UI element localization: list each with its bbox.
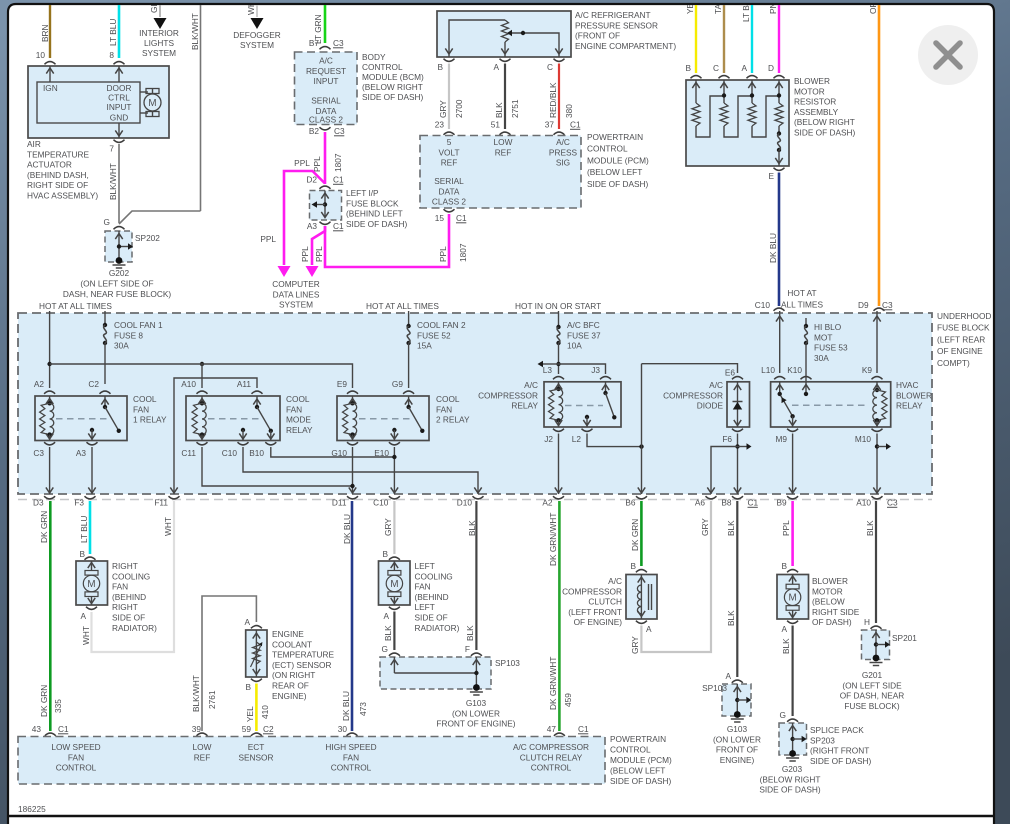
svg-text:COMPRESSOR: COMPRESSOR: [478, 390, 538, 400]
svg-text:MOTOR: MOTOR: [794, 86, 825, 96]
svg-text:A: A: [646, 624, 652, 634]
wire bus to A10: [201, 364, 203, 388]
connector pin 15: [444, 209, 455, 212]
svg-text:HOT AT ALL TIMES: HOT AT ALL TIMES: [39, 301, 112, 311]
svg-text:DATA LINES: DATA LINES: [273, 289, 320, 299]
svg-text:B: B: [437, 62, 443, 72]
svg-text:B9: B9: [776, 498, 787, 508]
svg-text:F11: F11: [154, 498, 168, 508]
svg-text:FAN: FAN: [436, 404, 452, 414]
wire WHT to defogger: [256, 5, 258, 17]
resistor branch D: [778, 80, 780, 103]
svg-text:(BEHIND: (BEHIND: [415, 592, 449, 602]
wire F6 junction to A6 and B8: [737, 434, 739, 495]
svg-text:ALL TIMES: ALL TIMES: [781, 300, 823, 310]
svg-text:HVAC: HVAC: [896, 380, 918, 390]
svg-text:2761: 2761: [207, 690, 217, 709]
exit A2 connector: [553, 496, 564, 499]
svg-text:VOLT: VOLT: [438, 147, 459, 157]
connectors PCM top: [444, 132, 455, 135]
connector B blower: [787, 570, 798, 573]
svg-text:LOW: LOW: [494, 137, 513, 147]
svg-text:WHT: WHT: [81, 626, 91, 645]
svg-text:2700: 2700: [454, 99, 464, 118]
svg-text:RED/BLK: RED/BLK: [548, 82, 558, 118]
wire BLK/WHT from top: [200, 5, 202, 211]
resistor branch C: [723, 80, 725, 103]
svg-text:REAR OF: REAR OF: [272, 681, 309, 691]
wire ORG from top to D9: [878, 5, 881, 306]
svg-text:MODULE (PCM): MODULE (PCM): [610, 755, 672, 765]
wire GRY to interior lights: [159, 5, 161, 17]
svg-text:DK BLU: DK BLU: [342, 514, 352, 544]
svg-text:M10: M10: [855, 434, 872, 444]
connector A ECT: [251, 626, 262, 629]
svg-text:PRESSURE SENSOR: PRESSURE SENSOR: [575, 20, 658, 30]
svg-text:39: 39: [192, 724, 202, 734]
svg-text:DK GRN/WHT: DK GRN/WHT: [548, 513, 558, 566]
svg-text:8: 8: [109, 50, 114, 60]
svg-text:YEL: YEL: [245, 706, 255, 722]
wire BLK B8 to SP103#2: [736, 501, 738, 677]
svg-text:BLK: BLK: [726, 610, 736, 626]
svg-text:A3: A3: [307, 221, 318, 231]
connector A blower: [787, 621, 798, 624]
svg-text:A/C BFC: A/C BFC: [567, 320, 600, 330]
connector G SP202: [114, 227, 125, 230]
svg-text:INPUT: INPUT: [314, 76, 339, 86]
sensor internal left lead pin B: [449, 20, 505, 57]
svg-text:(RIGHT FRONT: (RIGHT FRONT: [810, 746, 869, 756]
svg-text:CLASS 2: CLASS 2: [309, 115, 344, 125]
connectors B C A D: [691, 76, 702, 79]
connectors A2 C2: [44, 391, 55, 394]
svg-text:MODULE (PCM): MODULE (PCM): [587, 155, 649, 165]
svg-text:380: 380: [564, 104, 574, 118]
arrow computer data lines (right): [306, 266, 319, 277]
stub arrow left: [543, 363, 559, 365]
svg-text:LOW: LOW: [193, 742, 212, 752]
svg-text:B: B: [685, 63, 691, 73]
svg-text:A11: A11: [237, 379, 252, 389]
svg-text:DOOR: DOOR: [107, 83, 132, 93]
wire LT BLU to pin A: [751, 5, 753, 73]
svg-text:(ON LEFT SIDE OF: (ON LEFT SIDE OF: [80, 279, 153, 289]
svg-text:30A: 30A: [114, 341, 129, 351]
svg-text:BLOWER: BLOWER: [896, 390, 932, 400]
svg-text:ENGINE): ENGINE): [272, 691, 307, 701]
svg-text:A/C: A/C: [709, 380, 723, 390]
connector pin 10: [45, 62, 56, 65]
box left cooling fan: [379, 561, 411, 605]
svg-text:A: A: [244, 617, 250, 627]
svg-text:FAN: FAN: [133, 404, 149, 414]
svg-text:RELAY: RELAY: [286, 425, 313, 435]
svg-text:D: D: [768, 63, 774, 73]
svg-text:COOL: COOL: [133, 394, 157, 404]
wire BLK left fan A to G: [393, 612, 395, 651]
svg-text:LT BLU: LT BLU: [79, 516, 89, 543]
wire C10 to L10: [779, 311, 781, 373]
svg-text:AIR: AIR: [27, 139, 41, 149]
left fan motor: [393, 561, 395, 571]
wire LT BLU F3 to right fan B: [89, 501, 92, 554]
svg-text:(BEHIND DASH,: (BEHIND DASH,: [27, 170, 89, 180]
wire A3 to F3 exit: [91, 447, 93, 494]
svg-text:B6: B6: [625, 498, 636, 508]
svg-text:A: A: [80, 611, 86, 621]
svg-text:ASSEMBLY: ASSEMBLY: [794, 107, 839, 117]
svg-text:RELAY: RELAY: [896, 401, 923, 411]
svg-text:OF ENGINE): OF ENGINE): [574, 617, 623, 627]
arrow interior lights system: [154, 18, 167, 29]
svg-text:SERIAL: SERIAL: [311, 96, 341, 106]
svg-text:SIDE OF DASH): SIDE OF DASH): [759, 785, 821, 795]
box PCM (bottom): [18, 737, 605, 785]
svg-text:410: 410: [260, 705, 270, 719]
svg-text:37: 37: [545, 120, 555, 130]
svg-text:RIGHT: RIGHT: [112, 602, 138, 612]
close button: [918, 25, 978, 85]
svg-text:TEMPERATURE: TEMPERATURE: [27, 149, 90, 159]
connectors E9 G9: [347, 391, 358, 394]
wire YEL to pin B: [695, 5, 697, 73]
svg-text:(BELOW RIGHT: (BELOW RIGHT: [760, 774, 821, 784]
wire TAN to pin C: [723, 5, 725, 73]
svg-text:1807: 1807: [458, 243, 468, 262]
svg-text:POWERTRAIN: POWERTRAIN: [587, 132, 643, 142]
svg-text:M: M: [148, 98, 156, 109]
svg-text:B2: B2: [309, 126, 320, 136]
svg-text:E: E: [768, 171, 774, 181]
svg-text:SIDE OF DASH): SIDE OF DASH): [587, 179, 649, 189]
sensor potentiometer resistor: [502, 20, 509, 42]
svg-text:PPL: PPL: [260, 234, 276, 244]
svg-text:FUSE BLOCK): FUSE BLOCK): [844, 701, 900, 711]
svg-text:B: B: [781, 561, 787, 571]
box ECT sensor: [246, 630, 267, 677]
connectors C3 A3: [44, 442, 55, 445]
actuator pin 8 lead: [118, 66, 120, 82]
svg-text:(FRONT OF: (FRONT OF: [575, 31, 620, 41]
box underhood fuse block: [18, 313, 932, 494]
svg-text:GRY: GRY: [700, 518, 710, 536]
svg-text:(BELOW LEFT: (BELOW LEFT: [587, 167, 642, 177]
svg-text:RIGHT: RIGHT: [112, 561, 138, 571]
svg-text:HOT AT: HOT AT: [787, 288, 816, 298]
svg-text:G202: G202: [109, 268, 130, 278]
exit C10 connector: [389, 496, 400, 499]
connector G SP203: [787, 719, 798, 722]
svg-text:G: G: [382, 644, 388, 654]
svg-text:C1: C1: [333, 221, 344, 231]
svg-text:M: M: [390, 579, 398, 590]
svg-text:A10: A10: [181, 379, 196, 389]
svg-text:BODY: BODY: [362, 52, 386, 62]
hvac switch L10 leg: [779, 382, 781, 394]
svg-text:(ON RIGHT: (ON RIGHT: [272, 670, 315, 680]
svg-text:C1: C1: [748, 498, 759, 508]
connector A right fan: [86, 607, 97, 610]
svg-text:REQUEST: REQUEST: [306, 66, 346, 76]
compressor relay switch: [605, 382, 607, 393]
wire GRY C10 to left fan B: [393, 501, 395, 554]
svg-text:C1: C1: [570, 120, 581, 130]
wire BLK/WHT PCM39 to ECT A: [202, 596, 256, 731]
svg-text:SP201: SP201: [892, 633, 917, 643]
svg-text:COMPRESSOR: COMPRESSOR: [663, 390, 723, 400]
svg-text:A: A: [741, 63, 747, 73]
svg-text:PPL: PPL: [312, 156, 322, 172]
connectors C11 C10 B10: [197, 442, 208, 445]
exit D11 connector: [347, 496, 358, 499]
connectors G10 E10: [347, 442, 358, 445]
svg-text:G103: G103: [727, 724, 748, 734]
svg-text:PPL: PPL: [438, 246, 448, 262]
connector pin C: [554, 59, 565, 62]
svg-text:LT BLU: LT BLU: [108, 19, 118, 46]
connector B2: [320, 127, 331, 130]
svg-text:SERIAL: SERIAL: [434, 176, 464, 186]
relay HVAC blower box: [771, 382, 891, 427]
svg-text:L3: L3: [543, 365, 553, 375]
svg-text:B7: B7: [309, 38, 320, 48]
svg-text:CONTROL: CONTROL: [610, 745, 651, 755]
wire DK BLU D11 to PCM 30: [351, 501, 354, 731]
svg-text:LOW SPEED: LOW SPEED: [51, 742, 100, 752]
svg-text:RIGHT SIDE OF: RIGHT SIDE OF: [27, 180, 88, 190]
svg-text:PPL: PPL: [781, 520, 791, 536]
wire GRY A6 to clutch A: [641, 501, 711, 652]
svg-text:SIDE OF DASH): SIDE OF DASH): [610, 776, 672, 786]
arrow computer data lines (left): [278, 266, 291, 277]
svg-text:SP103: SP103: [495, 658, 520, 668]
wire BLK A10 to SP201 H: [875, 501, 877, 623]
svg-text:WHT: WHT: [163, 517, 173, 536]
wire PPL to pin D: [778, 5, 780, 73]
svg-text:B: B: [382, 549, 388, 559]
exit F3 connector: [85, 496, 96, 499]
svg-text:23: 23: [435, 120, 445, 130]
svg-text:CONTROL: CONTROL: [531, 763, 572, 773]
svg-text:5: 5: [447, 137, 452, 147]
svg-text:A: A: [493, 62, 499, 72]
svg-text:D11: D11: [332, 498, 347, 508]
box left I/P fuse block: [310, 191, 342, 221]
wire M9 to B9 exit: [792, 434, 794, 495]
wire PPL A3 down-left to arrow: [312, 226, 325, 265]
svg-text:A6: A6: [695, 498, 706, 508]
connector pin 8: [114, 62, 125, 65]
wire DK GRN/WHT A2 to PCM 47: [558, 501, 561, 731]
svg-text:CONTROL: CONTROL: [362, 62, 403, 72]
exit A10 connector: [872, 496, 883, 499]
svg-text:MOTOR: MOTOR: [812, 586, 843, 596]
connectors M9 M10: [787, 429, 798, 432]
svg-text:COMPT): COMPT): [937, 358, 970, 368]
svg-text:47: 47: [547, 724, 557, 734]
svg-text:PPL: PPL: [294, 158, 310, 168]
hvac blade: [781, 396, 793, 417]
second dashed line below bottom edge: [18, 499, 932, 501]
svg-text:43: 43: [32, 724, 42, 734]
svg-text:HIGH SPEED: HIGH SPEED: [325, 742, 376, 752]
bus junction dots: [47, 362, 51, 366]
svg-text:G201: G201: [862, 670, 883, 680]
svg-text:FAN: FAN: [68, 752, 84, 762]
clutch coil symbol: [640, 575, 642, 620]
svg-text:K9: K9: [862, 365, 873, 375]
connector B left fan: [389, 557, 400, 560]
svg-text:C3: C3: [33, 448, 44, 458]
svg-text:A: A: [781, 624, 787, 634]
exit B9 connector: [787, 496, 798, 499]
svg-text:MODE: MODE: [286, 415, 311, 425]
exit A6 connector: [706, 496, 717, 499]
svg-text:ENGINE: ENGINE: [272, 629, 304, 639]
svg-text:COOLING: COOLING: [415, 571, 453, 581]
relay3 coil: [352, 396, 354, 403]
box a/c refrigerant pressure sensor: [437, 11, 571, 57]
svg-text:REF: REF: [194, 752, 211, 762]
svg-text:DEFOGGER: DEFOGGER: [233, 30, 280, 40]
svg-text:INTERIOR: INTERIOR: [139, 28, 179, 38]
svg-text:D9: D9: [858, 300, 869, 310]
svg-text:1807: 1807: [333, 153, 343, 172]
svg-text:COMPRESSOR: COMPRESSOR: [562, 586, 622, 596]
svg-text:PRESS: PRESS: [549, 147, 578, 157]
svg-text:C10: C10: [373, 498, 389, 508]
relay3 dashed link: [359, 418, 414, 420]
svg-text:K10: K10: [787, 365, 802, 375]
svg-text:DIODE: DIODE: [697, 401, 724, 411]
svg-text:UNDERHOOD: UNDERHOOD: [937, 311, 991, 321]
box blower motor resistor assembly: [686, 80, 789, 166]
svg-text:SIDE OF DASH): SIDE OF DASH): [362, 92, 424, 102]
svg-text:7: 7: [109, 144, 114, 154]
svg-text:BLK/WHT: BLK/WHT: [190, 13, 200, 50]
svg-text:LEFT: LEFT: [415, 602, 435, 612]
wire BLK D10 to F: [475, 501, 477, 650]
connector G SP103: [389, 653, 400, 656]
svg-text:BLK: BLK: [781, 638, 791, 654]
wire to J3: [559, 364, 606, 374]
relay3 switch: [408, 396, 410, 407]
svg-text:OF DASH): OF DASH): [812, 617, 852, 627]
junction fuse37: [556, 362, 560, 366]
svg-text:L10: L10: [761, 365, 775, 375]
splice SP202: [105, 231, 132, 262]
svg-text:FUSE 53: FUSE 53: [814, 343, 848, 353]
svg-text:ACTUATOR: ACTUATOR: [27, 160, 72, 170]
svg-text:SIDE OF: SIDE OF: [112, 613, 145, 623]
svg-text:459: 459: [563, 693, 573, 707]
svg-text:FAN: FAN: [343, 752, 359, 762]
svg-text:FAN: FAN: [286, 404, 302, 414]
svg-text:HOT AT ALL TIMES: HOT AT ALL TIMES: [366, 301, 439, 311]
svg-text:FUSE 52: FUSE 52: [417, 330, 451, 340]
wire M10 to A10 exit: [876, 434, 878, 495]
svg-text:GRY: GRY: [383, 518, 393, 536]
svg-text:M: M: [789, 593, 797, 604]
exit D3 connector: [44, 496, 55, 499]
connector A3: [320, 222, 331, 225]
svg-text:C3: C3: [333, 38, 344, 48]
svg-text:FUSE BLOCK: FUSE BLOCK: [937, 323, 990, 333]
connector H SP201: [871, 626, 882, 629]
svg-text:COOL FAN 1: COOL FAN 1: [114, 320, 163, 330]
connector D9 top entry: [874, 308, 885, 311]
svg-text:C10: C10: [755, 300, 771, 310]
svg-text:C1: C1: [333, 175, 344, 185]
svg-text:A: A: [383, 611, 389, 621]
svg-text:SIDE OF: SIDE OF: [415, 613, 448, 623]
thermal limiter branch D: [778, 126, 780, 133]
wire LT GRN to B7: [324, 5, 327, 43]
diode symbol: [733, 401, 743, 403]
svg-text:59: 59: [242, 724, 252, 734]
connector pin 7: [114, 140, 125, 143]
compressor relay dashed link: [565, 405, 603, 407]
box air temperature actuator: [28, 66, 169, 138]
ECT thermistor: [255, 630, 257, 677]
svg-text:SYSTEM: SYSTEM: [240, 40, 274, 50]
svg-text:L2: L2: [572, 434, 582, 444]
relay a/c compressor box: [544, 382, 621, 427]
compressor relay coil: [558, 382, 560, 389]
svg-text:2 RELAY: 2 RELAY: [436, 415, 470, 425]
hvac coil: [876, 382, 878, 390]
svg-text:COOL FAN 2: COOL FAN 2: [417, 320, 466, 330]
actuator pin 10 lead: [49, 66, 51, 82]
svg-text:(BEHIND: (BEHIND: [112, 592, 146, 602]
svg-text:C: C: [547, 62, 553, 72]
svg-text:FRONT OF ENGINE): FRONT OF ENGINE): [436, 719, 515, 729]
wire RED/BLK 380: [558, 64, 560, 130]
wire PPL B9 to blower B: [791, 501, 794, 566]
fuse 53 wire: [805, 318, 807, 326]
relay1 dashed link: [56, 418, 111, 420]
hvac dashed link: [792, 404, 868, 406]
svg-text:DK BLU: DK BLU: [768, 233, 778, 263]
svg-text:COOL: COOL: [436, 394, 460, 404]
box PCM (top): [420, 136, 581, 209]
wire DK GRN D3 to PCM 43: [49, 501, 52, 731]
svg-text:LIGHTS: LIGHTS: [144, 38, 174, 48]
svg-text:10A: 10A: [567, 341, 582, 351]
svg-text:51: 51: [491, 120, 501, 130]
svg-text:CONTROL: CONTROL: [56, 763, 97, 773]
svg-text:C2: C2: [263, 724, 274, 734]
actuator GND lead: [118, 123, 120, 138]
splice SP203: [779, 723, 807, 755]
svg-text:POWERTRAIN: POWERTRAIN: [610, 734, 666, 744]
sensor wiper: [511, 33, 559, 57]
svg-text:F3: F3: [74, 498, 84, 508]
svg-text:RIGHT SIDE: RIGHT SIDE: [812, 607, 860, 617]
svg-text:BLK: BLK: [494, 102, 504, 118]
box a/c compressor clutch: [626, 575, 657, 620]
svg-text:RELAY: RELAY: [511, 401, 538, 411]
wire PPL A3 to PCM pin 15: [325, 214, 449, 267]
svg-text:COOL: COOL: [286, 394, 310, 404]
svg-text:E10: E10: [374, 448, 389, 458]
svg-text:CTRL: CTRL: [108, 93, 130, 103]
svg-text:GND: GND: [110, 113, 128, 123]
svg-text:SYSTEM: SYSTEM: [279, 300, 313, 310]
svg-text:CLUTCH: CLUTCH: [588, 597, 622, 607]
svg-text:SP202: SP202: [135, 233, 160, 243]
